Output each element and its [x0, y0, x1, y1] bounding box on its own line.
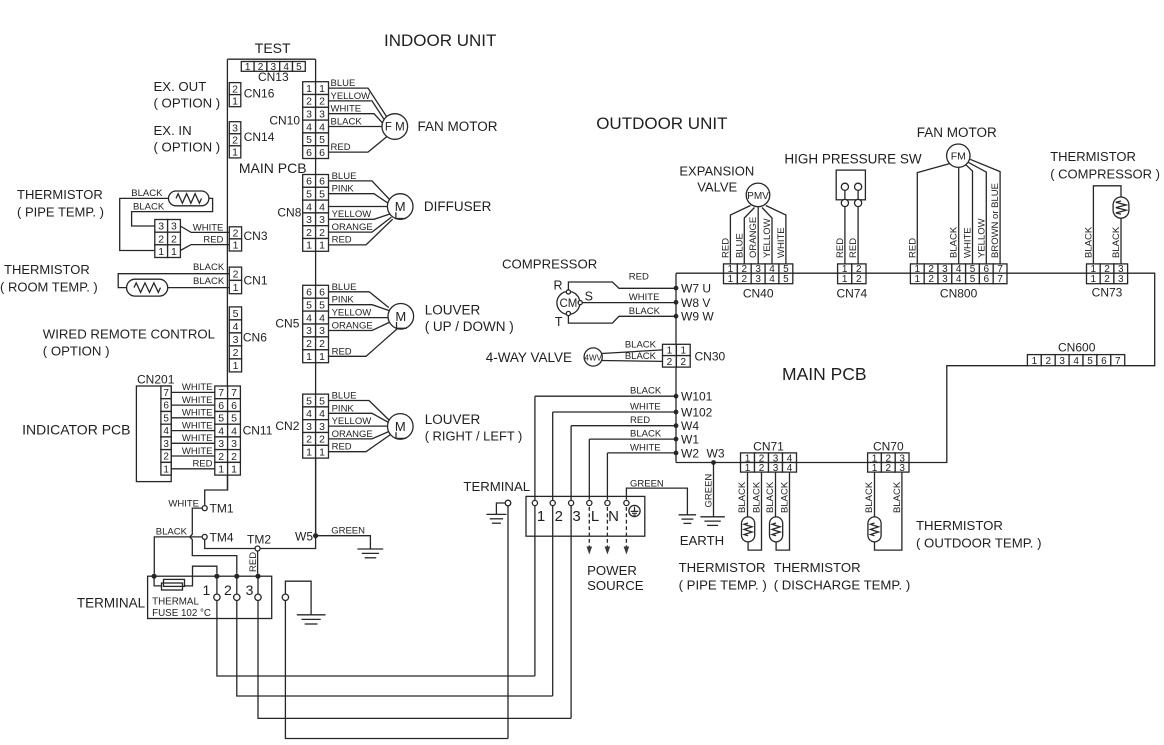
label EARTH — [680, 533, 724, 548]
svg-text:4-WAY VALVE: 4-WAY VALVE — [486, 350, 572, 365]
wire W2 WHITE — [607, 442, 676, 453]
wire CN2-1 RED — [329, 434, 393, 453]
node W4 — [674, 419, 700, 433]
wire riser L — [588, 439, 590, 499]
svg-text:1: 1 — [319, 240, 325, 252]
svg-text:WIRED REMOTE CONTROL: WIRED REMOTE CONTROL — [43, 327, 215, 342]
connector CN30 — [663, 344, 726, 368]
svg-text:LOUVER: LOUVER — [425, 303, 481, 318]
wire W4 RED — [571, 415, 676, 426]
terminal post 2 — [224, 576, 240, 600]
label THERMISTOR PIPE TEMP outdoor — [679, 560, 767, 593]
wire W101 BLACK — [535, 386, 676, 397]
wire W3 green down — [704, 463, 715, 517]
wire CN800-1 RED — [907, 164, 950, 264]
svg-text:4: 4 — [956, 274, 962, 285]
diffuser motor M — [387, 194, 413, 220]
svg-text:RED: RED — [835, 238, 846, 258]
expansion valve motor PMV — [746, 183, 770, 207]
svg-text:W7 U: W7 U — [681, 282, 711, 296]
label WIRED REMOTE CONTROL (OPTION) — [43, 327, 215, 359]
connector CN600 — [1027, 341, 1124, 367]
svg-text:5: 5 — [306, 189, 312, 201]
svg-text:1: 1 — [306, 240, 312, 252]
svg-text:4: 4 — [319, 121, 325, 133]
svg-text:POWER: POWER — [587, 563, 637, 578]
label THERMISTOR COMPRESSOR — [1050, 149, 1160, 182]
svg-text:3: 3 — [163, 439, 169, 450]
terminal post 1 — [203, 576, 221, 600]
terminal post N — [605, 500, 619, 525]
wire CN70-1 BLACK — [864, 472, 875, 517]
wire CN2-4 PINK — [329, 403, 390, 423]
svg-text:1: 1 — [233, 282, 239, 294]
wire CN201-6 WHITE — [171, 395, 215, 406]
svg-text:S: S — [585, 290, 593, 304]
svg-text:3: 3 — [306, 421, 312, 433]
svg-text:BLACK: BLACK — [1083, 226, 1094, 258]
svg-text:2: 2 — [158, 233, 164, 245]
svg-text:1: 1 — [915, 274, 921, 285]
svg-text:3: 3 — [158, 221, 164, 233]
title INDOOR UNIT — [384, 31, 496, 50]
svg-text:WHITE: WHITE — [630, 442, 661, 453]
wire bus post2 to outdoor 2 — [237, 601, 553, 697]
terminal TM4 — [202, 531, 234, 545]
svg-text:YELLOW: YELLOW — [332, 416, 372, 427]
svg-text:6: 6 — [218, 400, 224, 412]
svg-text:YELLOW: YELLOW — [976, 218, 987, 258]
svg-text:COMPRESSOR: COMPRESSOR — [502, 257, 597, 272]
svg-text:3: 3 — [306, 214, 312, 226]
svg-text:BLACK: BLACK — [752, 481, 763, 513]
connector CN71 — [741, 440, 797, 474]
node W101 — [674, 390, 713, 404]
svg-text:( ROOM TEMP. ): ( ROOM TEMP. ) — [0, 280, 98, 295]
node W8 V — [674, 296, 711, 310]
ground outdoor terminal — [486, 514, 506, 523]
svg-text:THERMISTOR: THERMISTOR — [4, 262, 90, 277]
high pressure switch — [836, 170, 865, 206]
svg-text:1: 1 — [306, 351, 312, 363]
svg-text:1: 1 — [171, 246, 177, 258]
label COMPRESSOR — [502, 257, 597, 272]
label EX. OUT (OPTION) — [154, 79, 221, 111]
svg-text:RED: RED — [192, 459, 212, 470]
junction dots on terminal block — [152, 574, 261, 579]
indoor main PCB top edge — [227, 58, 315, 60]
connector CN73 — [1087, 264, 1128, 300]
svg-text:CN14: CN14 — [244, 130, 275, 144]
svg-text:HIGH PRESSURE SW: HIGH PRESSURE SW — [784, 152, 922, 167]
svg-text:1: 1 — [319, 447, 325, 459]
svg-text:WHITE: WHITE — [629, 292, 660, 303]
connector CN3 — [229, 227, 268, 252]
connector CN40 — [724, 264, 793, 301]
wire thermistor black lead 1 — [120, 188, 169, 250]
svg-text:2: 2 — [232, 83, 238, 95]
ground near W5 — [358, 549, 384, 558]
svg-text:2: 2 — [928, 274, 934, 285]
connector pipe thermistor plug — [155, 220, 181, 258]
label TEST — [255, 40, 291, 56]
wire CN10-4 BLACK — [329, 117, 383, 128]
svg-text:2: 2 — [319, 96, 325, 108]
label EX. IN (OPTION) — [154, 123, 221, 155]
svg-text:2: 2 — [232, 135, 238, 147]
svg-text:2: 2 — [1046, 356, 1052, 367]
svg-text:CN800: CN800 — [940, 287, 978, 301]
svg-text:4: 4 — [769, 274, 775, 285]
svg-text:2: 2 — [306, 434, 312, 446]
svg-text:1: 1 — [537, 508, 545, 525]
svg-text:YELLOW: YELLOW — [332, 308, 372, 319]
wire CN71-2 BLACK loop — [748, 472, 762, 550]
svg-text:BLACK: BLACK — [156, 526, 188, 537]
earth symbol in outdoor terminal — [629, 505, 640, 516]
fan motor FM outdoor — [947, 144, 970, 167]
wire CN5-1 RED — [329, 329, 398, 358]
svg-text:DIFFUSER: DIFFUSER — [424, 199, 492, 214]
svg-text:5: 5 — [218, 413, 224, 425]
wire CN800-5 WHITE — [963, 165, 974, 264]
svg-text:4: 4 — [306, 121, 312, 133]
svg-text:THERMISTOR: THERMISTOR — [1050, 149, 1136, 164]
svg-text:BLUE: BLUE — [331, 78, 356, 89]
svg-text:5: 5 — [319, 299, 325, 311]
svg-text:TERMINAL: TERMINAL — [77, 596, 146, 611]
svg-text:SOURCE: SOURCE — [587, 578, 644, 593]
svg-text:GREEN: GREEN — [630, 478, 664, 489]
wire CN2-2 ORANGE — [329, 429, 391, 440]
svg-text:THERMISTOR: THERMISTOR — [17, 187, 103, 202]
svg-text:THERMISTOR: THERMISTOR — [916, 518, 1003, 533]
svg-text:1: 1 — [842, 274, 848, 285]
svg-text:CN1: CN1 — [244, 274, 268, 288]
wire CN40-3 ORANGE — [748, 207, 759, 264]
svg-text:4: 4 — [306, 312, 312, 324]
svg-text:BLACK: BLACK — [193, 276, 225, 287]
svg-text:1: 1 — [232, 96, 238, 108]
svg-text:2: 2 — [856, 274, 862, 285]
svg-text:2: 2 — [306, 338, 312, 350]
svg-text:WHITE: WHITE — [182, 446, 213, 457]
svg-text:CN70: CN70 — [873, 440, 904, 454]
terminal post L — [587, 500, 599, 525]
svg-text:CN3: CN3 — [244, 229, 268, 243]
svg-text:ORANGE: ORANGE — [332, 429, 373, 440]
svg-text:BLACK: BLACK — [737, 481, 748, 513]
svg-text:( OPTION ): ( OPTION ) — [43, 344, 110, 359]
svg-text:3: 3 — [1059, 356, 1065, 367]
svg-text:4: 4 — [218, 425, 224, 437]
fan motor FM indoor — [382, 114, 408, 140]
wire compressor R RED to W7 — [568, 272, 676, 290]
label THERMISTOR ROOM TEMP — [0, 262, 98, 295]
wire bus earth to outdoor earth — [285, 601, 508, 739]
wire CN5-5 PINK — [329, 295, 390, 311]
svg-text:BLUE: BLUE — [734, 233, 745, 258]
wire CN40-1 RED — [720, 206, 750, 264]
svg-text:5: 5 — [1087, 356, 1093, 367]
wire thermistor black lead 2 — [132, 198, 213, 226]
wire indoor earth to ground — [285, 581, 311, 614]
terminal post 3 outdoor — [569, 500, 581, 525]
wire CN8-2 ORANGE — [329, 217, 392, 233]
wire CN8-6 BLUE — [329, 171, 391, 200]
svg-text:5: 5 — [231, 413, 237, 425]
svg-text:PINK: PINK — [332, 295, 355, 306]
connector CN16 — [229, 83, 274, 108]
svg-text:4: 4 — [319, 201, 325, 213]
svg-text:WHITE: WHITE — [182, 433, 213, 444]
svg-text:W101: W101 — [681, 390, 713, 404]
label THERMISTOR DISCHARGE TEMP — [774, 560, 911, 593]
thermistor outdoor temp symbol — [868, 517, 881, 542]
svg-text:BLACK: BLACK — [630, 429, 662, 440]
svg-text:3: 3 — [1118, 274, 1124, 285]
indoor main PCB right edge — [315, 59, 317, 536]
label MAIN PCB outdoor — [782, 364, 867, 384]
thermal fuse symbol — [154, 566, 217, 590]
svg-text:GREEN: GREEN — [704, 474, 715, 508]
svg-text:( RIGHT / LEFT ): ( RIGHT / LEFT ) — [425, 429, 523, 444]
svg-text:WHITE: WHITE — [331, 104, 362, 115]
svg-text:5: 5 — [319, 395, 325, 407]
wire 4WV black 2 to CN30 — [602, 351, 663, 362]
connector CN5 — [275, 285, 328, 363]
wire CN2 to W5 — [315, 458, 317, 536]
svg-text:5: 5 — [319, 189, 325, 201]
svg-text:4: 4 — [231, 425, 237, 437]
svg-text:6: 6 — [319, 287, 325, 299]
wire CN71-1 BLACK — [737, 472, 748, 517]
svg-text:INDOOR UNIT: INDOOR UNIT — [384, 31, 496, 50]
connector CN10 — [269, 82, 328, 159]
svg-text:( OPTION ): ( OPTION ) — [154, 96, 221, 111]
wire CN10-2 YELLOW — [329, 91, 385, 120]
svg-text:3: 3 — [319, 214, 325, 226]
thermistor pipe temp symbol — [169, 191, 209, 206]
svg-text:FUSE 102 °C: FUSE 102 °C — [152, 608, 211, 619]
svg-text:W3: W3 — [707, 446, 725, 460]
svg-text:2: 2 — [1104, 274, 1110, 285]
svg-text:1: 1 — [319, 83, 325, 95]
svg-text:1: 1 — [233, 360, 239, 372]
svg-text:BLACK: BLACK — [133, 201, 165, 212]
wire CN73-1 BLACK — [1083, 186, 1121, 264]
svg-text:2: 2 — [171, 233, 177, 245]
svg-text:PMV: PMV — [747, 191, 769, 202]
svg-text:2: 2 — [306, 96, 312, 108]
svg-text:3: 3 — [306, 325, 312, 337]
wire TM4 to TM2 — [205, 540, 255, 549]
label FAN MOTOR — [418, 119, 498, 134]
svg-text:TM1: TM1 — [210, 502, 234, 516]
svg-text:( COMPRESSOR ): ( COMPRESSOR ) — [1050, 167, 1160, 182]
wire bus post3 to outdoor 3 — [258, 601, 571, 719]
svg-text:BROWN or BLUE: BROWN or BLUE — [990, 183, 1001, 258]
svg-text:2: 2 — [233, 347, 239, 359]
node W2 — [674, 446, 700, 460]
4-way valve coil 4WV — [584, 348, 602, 366]
wire CN5-6 BLUE — [329, 282, 389, 308]
svg-text:1: 1 — [1091, 274, 1097, 285]
svg-text:CN600: CN600 — [1058, 341, 1096, 355]
wire CN2-5 BLUE — [329, 391, 390, 421]
svg-text:1: 1 — [203, 582, 211, 598]
svg-text:4: 4 — [163, 426, 169, 437]
wire room thermistor black top — [118, 262, 229, 287]
outdoor terminal block box — [526, 496, 645, 536]
svg-text:2: 2 — [319, 227, 325, 239]
svg-text:CN5: CN5 — [275, 317, 299, 331]
svg-text:6: 6 — [306, 287, 312, 299]
svg-text:3: 3 — [942, 274, 948, 285]
node W9 W — [674, 310, 715, 324]
svg-text:4: 4 — [306, 408, 312, 420]
node W1 — [674, 433, 700, 447]
wire RED to CN3 — [180, 235, 229, 251]
svg-text:F M: F M — [385, 122, 405, 134]
indoor terminal block box — [148, 576, 272, 618]
svg-text:2: 2 — [233, 269, 239, 281]
svg-text:2: 2 — [681, 357, 687, 368]
svg-text:3: 3 — [319, 421, 325, 433]
svg-text:THERMAL: THERMAL — [152, 597, 199, 608]
svg-text:PINK: PINK — [332, 403, 355, 414]
wire CN800-6 YELLOW — [968, 162, 987, 264]
wire compressor S WHITE to W8 — [582, 292, 676, 303]
wire TM2 red down — [248, 551, 259, 573]
wire CN201-7 WHITE — [171, 382, 215, 393]
svg-text:CN10: CN10 — [269, 114, 300, 128]
wire CN10-3 WHITE — [329, 104, 384, 124]
wire green to earth ground — [626, 478, 687, 514]
svg-text:1: 1 — [231, 464, 237, 476]
terminal post 3 — [246, 576, 262, 600]
svg-text:CN16: CN16 — [244, 87, 275, 101]
wire compressor T BLACK to W9 — [568, 306, 676, 323]
svg-text:THERMISTOR: THERMISTOR — [774, 560, 861, 575]
svg-text:( OUTDOOR TEMP. ): ( OUTDOOR TEMP. ) — [916, 536, 1042, 551]
wire riser 1 — [534, 396, 536, 676]
svg-text:BLACK: BLACK — [864, 481, 875, 513]
connector CN11 — [215, 386, 273, 476]
svg-text:5: 5 — [970, 274, 976, 285]
wire CN201-2 WHITE — [171, 446, 215, 457]
wire CN70-3 BLACK loop — [875, 472, 903, 550]
svg-text:6: 6 — [163, 401, 169, 412]
svg-text:6: 6 — [306, 147, 312, 159]
svg-text:BLACK: BLACK — [1111, 226, 1122, 258]
svg-text:TM4: TM4 — [210, 531, 234, 545]
svg-text:W8 V: W8 V — [681, 296, 710, 310]
svg-text:RED: RED — [332, 442, 352, 453]
svg-text:L: L — [591, 508, 599, 525]
title OUTDOOR UNIT — [596, 114, 727, 133]
svg-text:5: 5 — [783, 274, 789, 285]
svg-text:RED: RED — [203, 235, 223, 246]
svg-text:BLUE: BLUE — [332, 171, 357, 182]
svg-text:1: 1 — [218, 464, 224, 476]
node W102 — [674, 406, 713, 420]
label THERMISTOR PIPE TEMP — [17, 187, 104, 220]
wire riser N — [606, 453, 608, 500]
thermistor discharge temp symbol — [770, 517, 783, 542]
svg-text:WHITE: WHITE — [182, 395, 213, 406]
wire CN40-2 BLUE — [734, 208, 754, 264]
connector CN800 — [910, 264, 1007, 301]
label TERMINAL indoor — [77, 596, 146, 611]
svg-text:BLUE: BLUE — [332, 282, 357, 293]
label 4-WAY VALVE — [486, 350, 572, 365]
label LOUVER UP/DOWN — [425, 303, 514, 335]
svg-text:EARTH: EARTH — [680, 533, 724, 548]
svg-text:5: 5 — [306, 299, 312, 311]
svg-text:1: 1 — [245, 62, 251, 73]
svg-text:CM: CM — [559, 298, 577, 310]
wire riser 3 — [570, 426, 572, 719]
wire CN800-7 BROWN or BLUE — [970, 159, 1001, 264]
svg-text:6: 6 — [1101, 356, 1107, 367]
wire CN5-3 ORANGE — [329, 321, 390, 332]
wire CN11 to TM1 — [205, 475, 228, 505]
svg-text:CN13: CN13 — [258, 70, 289, 84]
node W5 — [295, 530, 318, 544]
svg-text:4: 4 — [1073, 356, 1079, 367]
power source dashed arrow earth — [624, 507, 630, 555]
svg-text:4: 4 — [233, 321, 239, 333]
svg-text:LOUVER: LOUVER — [425, 412, 481, 427]
svg-text:2: 2 — [886, 463, 892, 474]
svg-text:6: 6 — [231, 400, 237, 412]
svg-text:N: N — [608, 508, 619, 525]
svg-text:WHITE: WHITE — [182, 382, 213, 393]
svg-text:RED: RED — [332, 234, 352, 245]
wire CN73-3 BLACK — [1111, 218, 1122, 264]
svg-text:RED: RED — [720, 238, 731, 258]
svg-text:M: M — [395, 199, 406, 214]
svg-text:CN2: CN2 — [275, 419, 299, 433]
svg-text:BLUE: BLUE — [332, 391, 357, 402]
svg-text:BLACK: BLACK — [949, 226, 960, 258]
svg-text:( PIPE TEMP. ): ( PIPE TEMP. ) — [679, 578, 767, 593]
svg-text:( DISCHARGE TEMP. ): ( DISCHARGE TEMP. ) — [774, 578, 911, 593]
power source dashed arrow L — [587, 507, 593, 555]
svg-text:WHITE: WHITE — [182, 420, 213, 431]
svg-text:W4: W4 — [681, 419, 699, 433]
svg-text:BLACK: BLACK — [131, 188, 163, 199]
svg-text:WHITE: WHITE — [630, 401, 661, 412]
svg-text:3: 3 — [319, 109, 325, 121]
svg-text:RED: RED — [907, 238, 918, 258]
wire CN2-3 YELLOW — [329, 416, 388, 427]
svg-text:BLACK: BLACK — [780, 481, 791, 513]
svg-text:1: 1 — [163, 464, 169, 475]
wire CN40-4 YELLOW — [762, 208, 773, 264]
wire CN74-1 RED — [835, 207, 846, 264]
svg-text:M: M — [395, 419, 406, 434]
svg-text:CN71: CN71 — [753, 440, 784, 454]
wire riser earth — [507, 506, 509, 739]
svg-text:4WV: 4WV — [585, 354, 603, 363]
svg-text:OUTDOOR UNIT: OUTDOOR UNIT — [596, 114, 727, 133]
louver up/down motor M — [388, 304, 414, 330]
power source dashed arrow N — [605, 507, 611, 555]
svg-text:1: 1 — [306, 447, 312, 459]
terminal TM1 — [168, 499, 233, 516]
